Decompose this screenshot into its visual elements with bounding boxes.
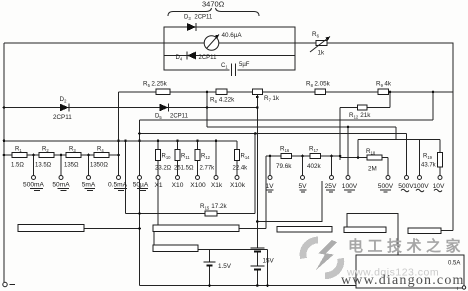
wire: long riser x=139.5 from band A1 down to bottom rail (through 50uA jack) xyxy=(139,120,141,286)
label R18 xyxy=(366,148,376,155)
svg-text:23.2Ω: 23.2Ω xyxy=(155,166,172,172)
svg-text:500mA: 500mA xyxy=(23,182,44,189)
battery B2 15V xyxy=(250,248,264,270)
svg-text:www.diangon.com: www.diangon.com xyxy=(341,273,465,288)
svg-text:R19: R19 xyxy=(423,154,433,160)
label R9 4k xyxy=(376,81,392,88)
svg-text:79.6k: 79.6k xyxy=(276,163,292,170)
label 79.6k xyxy=(276,163,292,170)
watermark faint url xyxy=(346,267,439,279)
label terminal X10 xyxy=(172,182,184,189)
label R7 1k xyxy=(264,95,280,102)
wire: X1 column descender to bar S2 xyxy=(157,180,159,225)
terminal 50uA xyxy=(138,176,142,180)
resistor R15 body xyxy=(205,211,217,216)
wire: 500V terminal drop xyxy=(387,158,389,176)
terminal 500mA xyxy=(32,176,36,180)
resistor R17 body xyxy=(310,153,321,158)
label terminal 0.5mA xyxy=(108,182,128,191)
label terminal X100 xyxy=(190,182,206,189)
svg-text:5mA: 5mA xyxy=(82,182,96,189)
label terminal 100V AC xyxy=(413,183,429,192)
label R1 xyxy=(15,147,22,153)
label terminal 10V AC xyxy=(433,183,445,192)
resistor R16 body xyxy=(281,153,292,158)
svg-text:500V: 500V xyxy=(378,183,394,190)
switch bar S1 xyxy=(18,225,84,232)
resistor R2 body xyxy=(39,152,54,157)
svg-text:0.5mA: 0.5mA xyxy=(108,182,128,189)
svg-text:R82.05k: R82.05k xyxy=(306,81,331,88)
svg-text:R52.25k: R52.25k xyxy=(143,81,168,88)
label R8 2.05k xyxy=(306,81,331,88)
node D: junction dots ohm top wire xyxy=(117,140,217,143)
wire: 5V terminal drop xyxy=(302,156,304,176)
svg-text:X1k: X1k xyxy=(211,182,223,189)
wire: 1.5V battery stem xyxy=(209,250,211,286)
wire: bar S5 riser and fuse feed xyxy=(347,214,398,256)
wire: 25V terminal drop xyxy=(331,156,333,176)
node A: junction dots left rail xyxy=(3,106,6,156)
label terminal 25V xyxy=(325,183,337,192)
svg-text:R1517.2k: R1517.2k xyxy=(200,203,227,210)
label 402k xyxy=(307,163,322,170)
svg-text:1.5V: 1.5V xyxy=(218,263,232,270)
label 40.6uA xyxy=(222,32,243,39)
terminal 0.5mA xyxy=(117,176,121,180)
capacitor C1 xyxy=(230,64,238,77)
terminal 500V AC xyxy=(405,176,409,180)
svg-text:13.5Ω: 13.5Ω xyxy=(35,163,52,169)
label terminal X10k xyxy=(230,182,246,189)
label 2CP11 (D4) xyxy=(199,55,218,61)
label R14 22.4k xyxy=(233,154,251,172)
terminal plus (bottom right) xyxy=(462,286,465,289)
wire: 500V AC terminal drop from band D xyxy=(406,134,408,176)
wire: D2/D5 diode line xyxy=(4,107,257,109)
resistor R3 body xyxy=(66,152,81,157)
svg-text:R3: R3 xyxy=(69,147,76,153)
wire: bar S2 to link xyxy=(239,228,266,230)
svg-text:500V: 500V xyxy=(398,183,414,190)
switch bar S4 xyxy=(277,227,332,233)
watermark logo swirl xyxy=(300,237,345,280)
node C: junction dots shunt row xyxy=(32,154,120,157)
label 3470 ohm xyxy=(202,0,225,9)
svg-text:1V: 1V xyxy=(265,183,274,190)
svg-text:R11: R11 xyxy=(181,154,190,160)
wire: band A2 horizontal (y=127.5) xyxy=(207,126,396,128)
diode D5 xyxy=(160,104,169,112)
svg-text:100V: 100V xyxy=(342,183,358,190)
svg-text:25V: 25V xyxy=(325,183,337,190)
svg-text:R1221k: R1221k xyxy=(349,112,371,119)
terminal minus (bottom left) xyxy=(3,282,15,286)
diode D4 xyxy=(187,52,196,60)
wire: 500mA terminal drop xyxy=(33,155,35,176)
wire: bar S2/S3 left ends vertical xyxy=(153,228,155,248)
watermark site name xyxy=(348,237,465,255)
wire: band A1 horizontal (y=120) xyxy=(140,119,434,121)
resistor R8 body xyxy=(315,89,326,94)
terminal 100V xyxy=(346,176,350,180)
resistor R12b vertical xyxy=(195,141,200,176)
wire: left negative rail (vertical) xyxy=(3,43,5,282)
resistor R11 vertical xyxy=(175,141,180,176)
wire: bottom rail (y=285.5) xyxy=(140,285,357,287)
wire: bar S1 to riser xyxy=(84,228,140,230)
label R4 xyxy=(97,147,104,153)
label R6 pot xyxy=(312,31,320,38)
label 2CP11 (D2) xyxy=(53,114,72,121)
svg-text:0.5A: 0.5A xyxy=(448,261,460,267)
label 1350 ohm xyxy=(90,163,108,169)
wire: R18 high voltage line (y=157.5) xyxy=(340,157,388,159)
wire: 0.5mA drop from R5 string through shunt row xyxy=(118,92,120,176)
svg-text:2.77k: 2.77k xyxy=(200,166,216,172)
label R2 xyxy=(42,147,49,153)
resistor R6 body xyxy=(216,89,227,94)
label R11 251.5 ohm xyxy=(174,154,194,172)
wire: bar S6 to right edge xyxy=(441,230,453,232)
label R15 17.2k xyxy=(200,203,227,210)
label terminal 50uA xyxy=(133,182,149,191)
svg-text:5µF: 5µF xyxy=(239,62,250,68)
terminal X1 xyxy=(156,176,160,180)
wire: R15 line (y=213.5) xyxy=(126,213,256,215)
brace for 3470 ohm span xyxy=(168,8,259,16)
label battery 15V xyxy=(263,258,275,265)
wire: 100V AC terminal drop xyxy=(419,140,421,176)
wire: ohm section right vertical from band D to R15 line xyxy=(254,134,256,214)
svg-text:C1: C1 xyxy=(221,63,228,69)
wire: DC voltage divider line R16/R17 (y=156) xyxy=(266,155,340,157)
terminal 5V xyxy=(301,176,305,180)
svg-text:135Ω: 135Ω xyxy=(64,163,79,169)
switch bar S2 xyxy=(153,225,239,232)
svg-text:D4: D4 xyxy=(176,55,183,61)
svg-text:X10: X10 xyxy=(172,182,184,189)
terminal 100V AC xyxy=(418,176,422,180)
label 13.5 ohm xyxy=(35,163,52,169)
galvanometer M 40.6uA xyxy=(204,35,219,51)
label D3 2CP11 xyxy=(184,15,213,21)
wire: crossbar leg to R18 line xyxy=(357,140,359,158)
svg-text:R94k: R94k xyxy=(376,81,392,88)
potentiometer R6 1k xyxy=(310,37,330,53)
svg-text:1350Ω: 1350Ω xyxy=(90,163,108,169)
label D5 xyxy=(155,114,162,120)
svg-text:1k: 1k xyxy=(318,50,326,57)
label R10 23.2 ohm xyxy=(155,154,172,172)
meter box frame xyxy=(164,27,295,70)
label terminal 500mA xyxy=(23,182,44,191)
node E: junction dots divider lines xyxy=(254,106,359,159)
resistor R9 body xyxy=(378,89,389,94)
svg-text:R64.22k: R64.22k xyxy=(210,97,235,104)
switch bar S3 xyxy=(153,245,198,252)
switch bar S6 xyxy=(408,228,441,234)
label 2M xyxy=(368,166,377,173)
wire: ohm section top wire (y=140.8) xyxy=(4,140,237,142)
label terminal 50mA xyxy=(52,182,70,191)
wire: output from meter box to pot xyxy=(295,42,316,44)
wire: riser x=433 from R9 string down to band A1 xyxy=(432,92,434,120)
wire: switch link from 15V column to 25V column xyxy=(257,181,322,222)
label C1 xyxy=(221,63,228,69)
label terminal X1 xyxy=(154,182,162,189)
wire: drop from R7 through D-line and band D down to 15V battery xyxy=(256,95,258,286)
label terminal X1k xyxy=(211,182,223,189)
svg-text:43.7k: 43.7k xyxy=(421,163,437,169)
wire: D4 branch line xyxy=(164,55,295,57)
diode D3 xyxy=(187,23,196,31)
wire: pot to top-right corner, down right edge to bar S6 xyxy=(327,43,453,231)
svg-text:X10k: X10k xyxy=(230,182,246,189)
resistor R14 vertical xyxy=(235,141,240,176)
label R19 xyxy=(423,154,433,160)
terminal 25V xyxy=(330,176,334,180)
svg-text:1.5Ω: 1.5Ω xyxy=(11,163,24,169)
terminal 10V AC xyxy=(438,176,442,180)
wire: AC crossbar (y=139.5) xyxy=(358,139,440,141)
label R17 xyxy=(309,146,319,153)
resistor R1 body xyxy=(12,152,27,157)
label R16 xyxy=(280,146,290,153)
wire: bar S3 to 1.5V battery line xyxy=(198,250,268,286)
terminal X1k xyxy=(214,176,218,180)
switch bar S5 xyxy=(344,227,386,233)
svg-text:15V: 15V xyxy=(263,258,275,265)
node G: misc junction dots xyxy=(124,106,258,230)
resistor R19 vertical xyxy=(438,153,443,168)
resistor R7 body xyxy=(253,89,263,94)
wire: drop from R5/R6 node down across bands xyxy=(206,92,208,127)
terminal X10 xyxy=(176,176,180,180)
terminal 500V xyxy=(386,176,390,180)
label R12 21k xyxy=(349,112,371,119)
label R12b 2.77k xyxy=(200,154,216,172)
label terminal 500V AC xyxy=(398,183,414,192)
label battery 1.5V xyxy=(218,263,232,270)
label terminal 5mA xyxy=(82,182,96,191)
terminal 5mA xyxy=(87,176,91,180)
label D2 xyxy=(60,96,68,103)
label 1.5 ohm xyxy=(11,163,24,169)
wire: shunt row (y=155) xyxy=(4,154,119,156)
label terminal 5V xyxy=(298,183,307,192)
svg-text:电工技术之家: 电工技术之家 xyxy=(348,237,465,255)
node F: junction dots bottom rail xyxy=(208,284,269,287)
svg-text:251.5Ω: 251.5Ω xyxy=(174,166,194,172)
svg-text:X1: X1 xyxy=(154,182,162,189)
svg-text:40.6µA: 40.6µA xyxy=(222,32,243,39)
svg-text:D5: D5 xyxy=(155,114,162,120)
terminal 50mA xyxy=(59,176,63,180)
svg-text:R14: R14 xyxy=(241,154,251,160)
svg-text:50µA: 50µA xyxy=(133,182,149,189)
svg-text:10V: 10V xyxy=(433,183,445,190)
svg-text:2CP11: 2CP11 xyxy=(53,114,72,121)
battery B1 1.5V xyxy=(204,262,216,266)
resistor R12 body (21k) xyxy=(358,105,368,110)
svg-text:100V: 100V xyxy=(413,183,429,190)
wire: band A2 right drop to AC crossbar xyxy=(395,127,397,140)
label 135 ohm xyxy=(64,163,79,169)
svg-text:2CP11: 2CP11 xyxy=(170,114,189,120)
terminal X10k xyxy=(235,176,239,180)
wire: 1V terminal drop xyxy=(269,156,271,176)
node B: junction dots on R5-R9 string xyxy=(206,91,435,99)
diode D2 xyxy=(60,104,69,112)
svg-text:R1: R1 xyxy=(15,147,22,153)
wire: R12 left drop to R18 line xyxy=(339,108,341,161)
wire: 100V terminal drop xyxy=(347,127,349,176)
label R5 2.25k xyxy=(143,81,168,88)
svg-text:R10: R10 xyxy=(162,154,172,160)
svg-text:R2: R2 xyxy=(42,147,49,153)
wire: 5mA terminal drop xyxy=(88,155,90,176)
svg-text:22.4k: 22.4k xyxy=(233,166,249,172)
watermark url diangon xyxy=(341,273,465,288)
svg-text:50mA: 50mA xyxy=(52,182,70,189)
wire: main resistor string R5-R9 (y=92) xyxy=(119,91,454,93)
wire: X1k terminal drop xyxy=(215,141,217,176)
label fuse 0.5A xyxy=(448,261,460,267)
svg-text:402k: 402k xyxy=(307,163,322,170)
wire: band D horizontal (y=133.5) xyxy=(140,133,407,135)
label 2CP11 (D5) xyxy=(170,114,189,120)
wire: meter branch center line xyxy=(164,42,295,44)
svg-text:R71k: R71k xyxy=(264,95,280,102)
label 43.7k xyxy=(421,163,437,169)
svg-text:R12: R12 xyxy=(201,154,211,160)
svg-text:2M: 2M xyxy=(368,166,377,173)
resistor R5 body xyxy=(156,89,170,94)
resistor R4 body xyxy=(94,152,109,157)
svg-text:3470Ω: 3470Ω xyxy=(202,0,225,9)
label plus terminal xyxy=(456,286,460,291)
label 5uF xyxy=(239,62,250,68)
label R6 4.22k xyxy=(210,97,235,104)
wire: R19 feed and 10V AC terminal drop xyxy=(439,140,441,176)
terminal 1V xyxy=(268,176,272,180)
svg-text:R4: R4 xyxy=(97,147,104,153)
resistor R18 body xyxy=(367,155,382,160)
label D4 xyxy=(176,55,183,61)
wire: 1V column link down to bar S2 wire xyxy=(265,156,267,229)
svg-text:X100: X100 xyxy=(190,182,206,189)
svg-text:5V: 5V xyxy=(298,183,307,190)
wire: R15 line left riser to ohm top wire xyxy=(125,141,127,214)
label 1k pot xyxy=(318,50,326,57)
wire: R12 branch line (y=107.5) xyxy=(340,107,390,109)
fuse box outline xyxy=(356,255,464,288)
label R3 xyxy=(69,147,76,153)
svg-text:2CP11: 2CP11 xyxy=(199,55,218,61)
label terminal 100V xyxy=(342,183,358,192)
wire: R12 riser to R9 string xyxy=(389,92,391,108)
resistor R10 vertical xyxy=(156,141,161,176)
terminal X100 xyxy=(196,176,200,180)
svg-text:D3 2CP11: D3 2CP11 xyxy=(184,15,213,21)
label terminal 500V xyxy=(378,183,394,192)
wire: 50mA terminal drop xyxy=(60,155,62,176)
wire: meter feed top horizontal xyxy=(4,42,164,44)
label terminal 1V xyxy=(265,183,274,192)
